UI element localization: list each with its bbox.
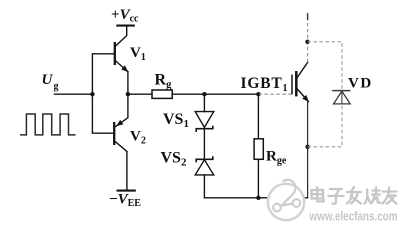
label -VEE	[109, 192, 141, 210]
svg-text:www.elecfans.com: www.elecfans.com	[309, 210, 398, 224]
wire gate junction to IGBT gate (faint)	[258, 93, 291, 95]
svg-text:V2: V2	[130, 129, 146, 147]
wire IGBT collector up (faint)	[307, 13, 309, 63]
transistor V2 (PNP)	[114, 94, 128, 151]
zener diode VS2	[195, 156, 214, 175]
node Rge bottom junction	[256, 196, 260, 200]
wire +Vcc to V1 collector	[115, 26, 126, 46]
transistor IGBT1 symbol	[292, 62, 309, 102]
svg-text:U: U	[42, 72, 54, 88]
wire gate junction down to Rge	[257, 94, 259, 139]
svg-text:V1: V1	[130, 45, 146, 63]
svg-text:VD: VD	[348, 76, 373, 92]
svg-text:IGBT1: IGBT1	[241, 75, 289, 94]
wire V1 emitter to output node	[127, 72, 129, 94]
wire junction to VS1	[203, 94, 205, 111]
watermark text dian	[312, 187, 324, 202]
label Ug	[42, 72, 59, 92]
svg-text:Rge: Rge	[266, 149, 287, 167]
label Rg	[155, 72, 173, 91]
node output junction	[126, 92, 130, 96]
svg-text:Rg: Rg	[155, 72, 173, 91]
wire V2 collector to -VEE	[126, 152, 128, 191]
node base junction	[90, 92, 94, 96]
watermark text www.elecfans.com	[309, 210, 398, 224]
label V1	[130, 45, 146, 63]
watermark text you	[383, 188, 397, 204]
wire VS1 to VS2	[203, 129, 205, 160]
node Rge branch junction	[256, 92, 260, 96]
wire Rg to gate junctions	[172, 93, 258, 95]
svg-text:+Vcc: +Vcc	[111, 7, 139, 25]
square wave input symbol	[20, 114, 76, 135]
wire IGBT emitter down	[307, 102, 309, 198]
label V2	[130, 129, 146, 147]
wire emitter junction to VD anode (faint)	[308, 104, 342, 147]
node zener branch junction	[202, 92, 206, 96]
node emitter-VD junction	[305, 145, 309, 149]
svg-text:g: g	[54, 81, 59, 92]
transistor V1 (NPN)	[115, 42, 129, 72]
label Rge	[266, 149, 287, 167]
label IGBT1	[241, 75, 289, 94]
watermark logo circle	[268, 180, 304, 220]
wire output node to Rg	[128, 93, 152, 95]
power rail +Vcc bar	[116, 25, 135, 27]
label VD	[348, 76, 373, 92]
resistor Rge	[254, 139, 263, 160]
svg-text:VS1: VS1	[163, 111, 189, 130]
resistor Rg	[152, 90, 172, 98]
power rail +Vcc label	[111, 7, 139, 25]
diode VD	[332, 91, 350, 104]
watermark text shao	[365, 188, 381, 204]
label VS1	[163, 111, 189, 130]
wire VS2 to bottom rail	[203, 175, 205, 198]
watermark text zi	[329, 189, 344, 204]
svg-text:VS2: VS2	[161, 150, 187, 169]
svg-text:−VEE: −VEE	[109, 192, 141, 210]
watermark text fa	[347, 187, 361, 204]
wire collector junction to VD (faint)	[308, 42, 343, 90]
wire base net (V1 base - V2 base)	[92, 54, 114, 133]
node collector-VD junction	[305, 40, 309, 44]
wire Ug input	[55, 93, 93, 95]
label VS2	[161, 150, 187, 169]
wire Rge to bottom rail	[257, 159, 259, 198]
zener diode VS1	[195, 112, 214, 132]
wire bottom rail	[204, 197, 307, 199]
power rail -VEE bar	[117, 190, 136, 192]
